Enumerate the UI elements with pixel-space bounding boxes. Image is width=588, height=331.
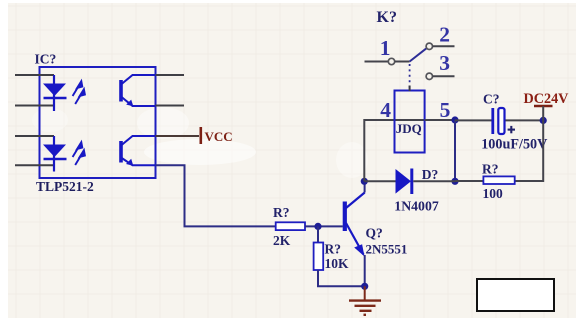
node emitter/ground junction — [361, 283, 368, 290]
smudge artifacts (decorative) — [32, 107, 368, 178]
value 2N5551 — [366, 241, 408, 256]
svg-text:2N5551: 2N5551 — [366, 241, 408, 256]
svg-text:DC24V: DC24V — [524, 91, 570, 107]
wire: collector up to relay node — [364, 181, 366, 192]
wire: ch1 collector stub — [156, 74, 185, 76]
svg-text:10K: 10K — [325, 256, 350, 271]
wire: pin5 node down to diode cathode node — [454, 120, 456, 181]
wire: pin5 node to capacitor — [455, 119, 492, 121]
svg-text:1: 1 — [380, 36, 391, 60]
svg-text:5: 5 — [440, 98, 451, 122]
svg-text:Q?: Q? — [366, 226, 383, 241]
value 2K — [273, 233, 291, 248]
polarity plus — [508, 126, 515, 133]
value 1N4007 — [394, 199, 439, 214]
switch contact circle pin 3 — [426, 73, 432, 79]
value 100 — [483, 186, 504, 201]
pin number 3 — [439, 51, 450, 75]
svg-text:D?: D? — [422, 167, 439, 182]
optocoupler LED channel 2 — [43, 136, 67, 172]
pin number 1 — [380, 36, 391, 60]
svg-text:1N4007: 1N4007 — [394, 199, 439, 214]
optocoupler LED channel 1 — [43, 75, 67, 111]
power symbol VCC bar — [200, 127, 203, 144]
node capacitor/rail junction — [540, 117, 547, 124]
wire: emitter down to ground rail — [364, 255, 366, 286]
optocoupler IC? TLP521-2 body — [40, 67, 156, 178]
svg-text:3: 3 — [439, 51, 450, 75]
pin 4 wire — [15, 164, 54, 166]
pin 1 wire (IC left top) — [15, 74, 54, 76]
node diode cathode / R100 junction — [451, 178, 458, 185]
node pin5 junction — [451, 116, 458, 123]
phototransistor channel 2 — [121, 136, 156, 166]
capacitor C? — [493, 108, 505, 134]
resistor R? 100 — [483, 176, 514, 184]
label R? (10K resistor) — [325, 241, 342, 256]
label IC? — [35, 52, 57, 67]
relay coil JDQ — [395, 91, 425, 153]
svg-text:IC?: IC? — [35, 52, 57, 67]
svg-text:VCC: VCC — [205, 129, 233, 144]
label D? — [422, 167, 439, 182]
svg-text:R?: R? — [482, 161, 499, 176]
label Q? — [366, 226, 383, 241]
value 100uF/50V — [481, 136, 548, 152]
wire: ch1 emitter stub — [156, 105, 185, 107]
switch common pin 1 wire — [365, 61, 389, 63]
pin number 4 — [380, 98, 391, 122]
svg-text:C?: C? — [483, 91, 500, 106]
label R? (2K resistor) — [273, 205, 290, 220]
wire: DC24V rail down and left to R 100 — [515, 106, 544, 181]
switch arm — [395, 48, 427, 61]
node base junction — [314, 223, 321, 230]
transistor Q? 2N5551 — [345, 193, 365, 257]
switch contact circle pin 1 — [388, 58, 394, 64]
value 10K — [325, 256, 350, 271]
wire: capacitor to DC24V rail — [506, 119, 544, 121]
dashed link switch to relay — [409, 64, 411, 91]
svg-text:2: 2 — [439, 23, 450, 47]
wire: ch2 collector to VCC — [156, 135, 200, 137]
diode D? 1N4007 — [396, 169, 412, 195]
wire: ch2 emitter down to R 2K — [156, 165, 276, 226]
pin number 2 — [439, 23, 450, 47]
wire: junction up to relay pin 4 — [364, 120, 455, 181]
ground — [349, 286, 381, 315]
switch contact circle pin 2 — [426, 43, 432, 49]
label JDQ — [396, 121, 422, 136]
pin 3 wire — [433, 75, 455, 77]
net label DC24V — [524, 91, 570, 107]
net label VCC — [205, 129, 233, 144]
wire: R 10K to ground rail — [318, 270, 365, 286]
pin 3 wire — [15, 135, 54, 137]
wire: base node down to R 10K — [317, 226, 319, 242]
wire: R 2K to base node — [305, 225, 343, 227]
label K? (switch) — [377, 9, 397, 26]
svg-text:4: 4 — [380, 98, 391, 122]
svg-text:TLP521-2: TLP521-2 — [36, 179, 94, 194]
svg-text:2K: 2K — [273, 233, 291, 248]
light arrows channel 2 — [73, 142, 85, 165]
resistor R? 10K — [314, 243, 324, 271]
resistor R? 2K — [276, 222, 305, 230]
wire: relay pin 5 to node — [425, 119, 455, 121]
svg-text:100: 100 — [483, 186, 504, 201]
wire: junction to diode anode — [364, 180, 395, 182]
phototransistor channel 1 — [121, 75, 156, 106]
power symbol DC24V bar — [534, 105, 553, 107]
label R? (100 resistor) — [482, 161, 499, 176]
svg-text:R?: R? — [325, 241, 342, 256]
pin number 5 — [440, 98, 451, 122]
light arrows channel 1 — [73, 81, 85, 104]
callout box (empty white label box) — [477, 279, 554, 311]
pin 2 wire — [433, 45, 455, 47]
label C? — [483, 91, 500, 106]
svg-text:100uF/50V: 100uF/50V — [481, 136, 548, 152]
wire: diode cathode to node — [413, 180, 455, 182]
node relay/diode/collector junction — [361, 178, 368, 185]
value label TLP521-2 — [36, 179, 94, 194]
svg-text:K?: K? — [377, 9, 397, 26]
wire: node to R 100 — [455, 180, 483, 182]
svg-text:R?: R? — [273, 205, 290, 220]
pin 2 wire — [15, 105, 54, 107]
svg-text:JDQ: JDQ — [396, 121, 422, 136]
